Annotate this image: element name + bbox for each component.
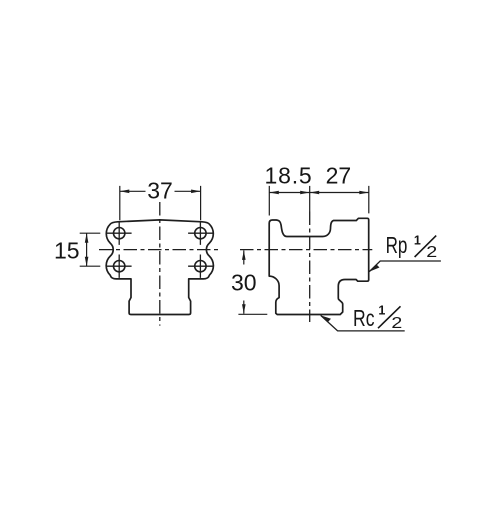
dim 37 arrow left	[120, 190, 130, 194]
dim 18.5/27 dimension line	[269, 192, 369, 194]
hole bottom-right cross	[188, 255, 213, 278]
dim 27 arrow left	[310, 191, 320, 195]
dim 15 extension lines	[80, 233, 101, 266]
hole top-right cross	[188, 222, 213, 245]
dim 30 dimension line	[243, 250, 245, 313]
leader Rp1/2 arrowhead	[369, 264, 379, 271]
leader Rp1/2	[369, 261, 441, 272]
dim 18.5 arrow left	[269, 191, 279, 195]
svg-text:1: 1	[414, 234, 421, 248]
dim 15 dimension line	[86, 233, 88, 266]
dim 30 extension line bottom	[238, 313, 267, 315]
hole top-left	[114, 228, 125, 239]
leader Rc1/2 arrowhead	[321, 315, 331, 322]
body outline side view	[269, 218, 369, 314]
svg-text:2: 2	[426, 244, 437, 261]
dim 30 arrow down	[242, 304, 246, 314]
dim 27 arrow right	[359, 191, 369, 195]
svg-text:27: 27	[326, 162, 352, 188]
hole top-left cross	[107, 222, 132, 245]
svg-text:37: 37	[147, 178, 173, 204]
dim 37 extension lines	[120, 186, 201, 220]
svg-text:1: 1	[378, 304, 385, 318]
centerline vertical side view	[309, 186, 311, 212]
svg-text:Rc: Rc	[353, 305, 375, 331]
dim 18.5 arrow right	[300, 191, 310, 195]
label Rc fraction slash	[378, 306, 401, 328]
centerline horizontal side view	[240, 249, 372, 251]
leader Rc1/2	[321, 315, 405, 331]
centerline horizontal front view	[99, 249, 221, 251]
centerline vertical front view	[159, 202, 161, 326]
dim 37 arrow right	[191, 190, 201, 194]
hole bottom-left	[114, 261, 125, 272]
hole bottom-right	[195, 261, 206, 272]
dim 30 arrow up	[242, 250, 246, 260]
svg-text:Rp: Rp	[386, 232, 408, 258]
dim 18.5/27 extension lines	[269, 186, 369, 216]
body outline front view	[106, 220, 213, 315]
dim 15 arrow up	[85, 233, 89, 243]
svg-text:30: 30	[231, 270, 257, 296]
hole top-right	[195, 228, 206, 239]
svg-text:18.5: 18.5	[265, 162, 313, 188]
svg-text:2: 2	[391, 315, 402, 332]
dim 15 arrow down	[85, 257, 89, 267]
svg-text:15: 15	[54, 238, 80, 264]
hole bottom-left cross	[107, 255, 132, 278]
label Rp fraction slash	[415, 236, 437, 257]
dim 37 dimension line	[120, 190, 201, 192]
